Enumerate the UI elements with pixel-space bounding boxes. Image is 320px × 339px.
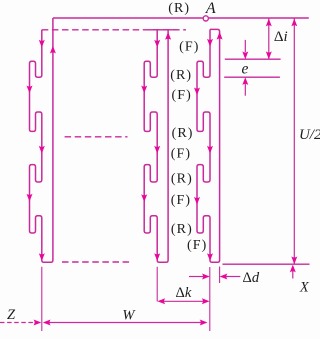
svg-text:e: e bbox=[241, 60, 248, 77]
svg-text:A: A bbox=[205, 0, 216, 17]
svg-text:Δi: Δi bbox=[274, 29, 288, 45]
svg-text:W: W bbox=[122, 307, 136, 323]
svg-text:(R): (R) bbox=[170, 68, 192, 83]
svg-text:(R): (R) bbox=[171, 172, 193, 187]
svg-text:(F): (F) bbox=[171, 193, 191, 208]
svg-text:U/2: U/2 bbox=[299, 127, 320, 143]
svg-text:(F): (F) bbox=[179, 40, 199, 55]
svg-text:Δd: Δd bbox=[243, 270, 260, 286]
svg-text:Δk: Δk bbox=[176, 285, 192, 301]
svg-text:(F): (F) bbox=[187, 238, 207, 253]
svg-text:X: X bbox=[299, 280, 310, 296]
svg-text:(R): (R) bbox=[172, 126, 194, 141]
svg-text:(R): (R) bbox=[168, 1, 190, 16]
svg-text:(F): (F) bbox=[171, 88, 191, 103]
svg-text:Z: Z bbox=[7, 307, 16, 323]
svg-text:(F): (F) bbox=[171, 146, 191, 161]
svg-text:(R): (R) bbox=[171, 222, 193, 237]
